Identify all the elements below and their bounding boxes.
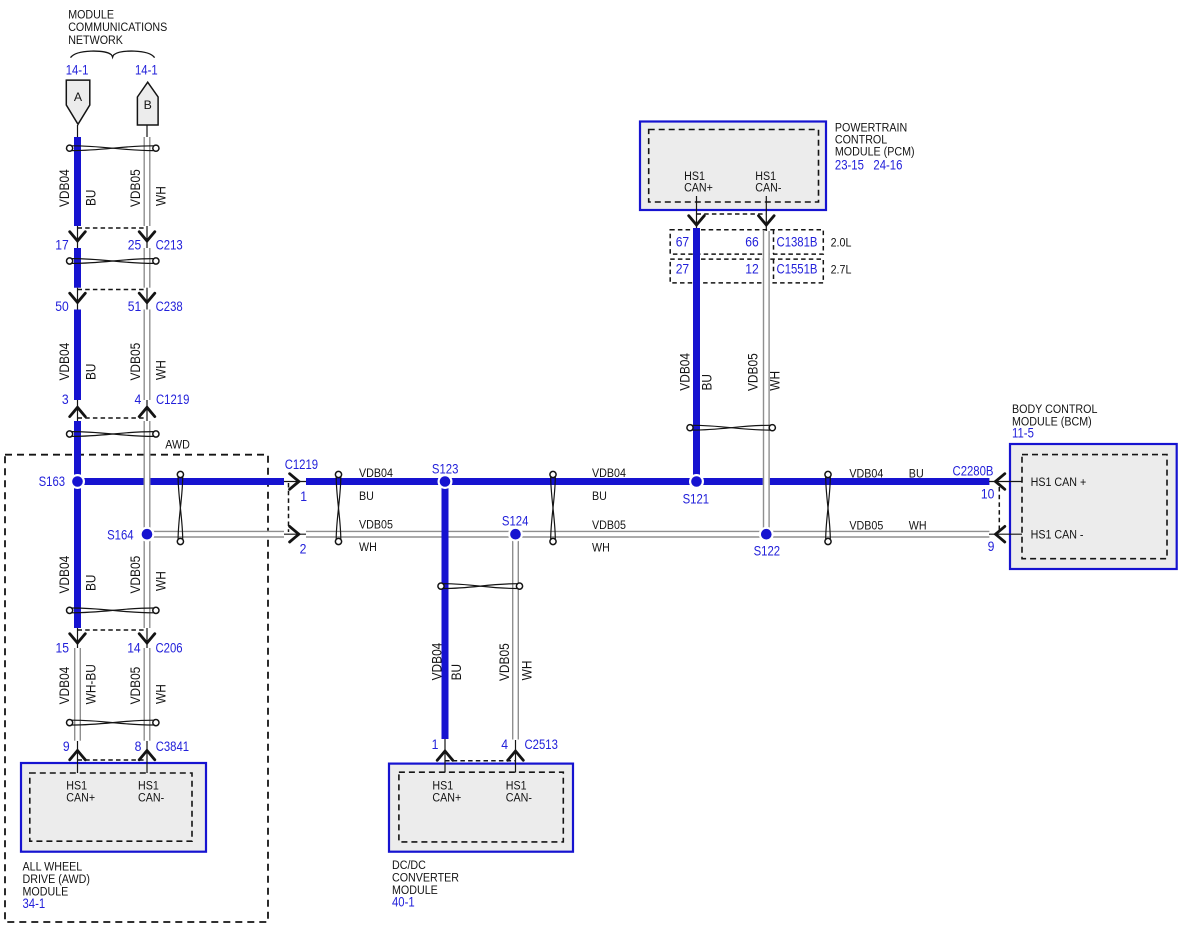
svg-text:VDB05: VDB05 — [127, 169, 143, 207]
svg-text:C1219: C1219 — [285, 457, 318, 472]
wire VDB05 WH horizontal S164 to C1219 pin 2 — [147, 531, 284, 537]
svg-text:11-5: 11-5 — [1012, 426, 1034, 441]
svg-text:S163: S163 — [39, 474, 66, 489]
wire VDB04 BU horizontal S163 to C1219 pin 1 — [78, 478, 285, 485]
label DC/DC CONVERTER MODULE — [392, 858, 459, 897]
wire label VDB05 WH vertical PCM — [744, 353, 782, 391]
svg-text:8: 8 — [135, 739, 142, 754]
label ALL WHEEL DRIVE (AWD) MODULE — [23, 860, 90, 899]
PCM pin label HS1 CAN+ — [684, 169, 713, 194]
svg-text:BU: BU — [359, 489, 374, 503]
twisted pair below A/B — [67, 145, 159, 151]
svg-text:12: 12 — [745, 262, 759, 277]
svg-text:BU: BU — [699, 374, 715, 391]
svg-text:51: 51 — [128, 299, 142, 314]
wire VDB04 BU vertical C1219 to S163 — [74, 421, 81, 482]
svg-text:S164: S164 — [107, 527, 134, 542]
pin 4 lead into DC/DC module — [515, 740, 517, 773]
C238 pin 51 terminal arrow — [139, 293, 155, 302]
svg-text:A: A — [74, 90, 83, 104]
svg-text:C1219: C1219 — [156, 392, 189, 407]
connector C206 dashed line — [78, 629, 148, 631]
svg-text:VDB04: VDB04 — [56, 556, 72, 594]
page ref 23-15 24-16 — [835, 158, 903, 173]
wire VDB05 WH vertical PCM to S122 — [764, 231, 770, 534]
svg-text:1: 1 — [300, 489, 307, 504]
svg-text:WH: WH — [153, 360, 169, 380]
C2280B pin 9 terminal arrow — [996, 526, 1005, 542]
svg-text:WH: WH — [153, 684, 169, 704]
wire label VDB04 BU segment 2 — [592, 466, 626, 503]
C1219 pin 3 terminal arrow — [70, 407, 86, 416]
wire label VDB04 BU vertical group 2 — [56, 343, 99, 381]
svg-text:4: 4 — [501, 737, 508, 752]
C238 pin 50 terminal arrow — [70, 293, 86, 302]
twisted pair below S123/S124 — [438, 583, 523, 589]
label POWERTRAIN CONTROL MODULE (PCM) — [835, 120, 915, 158]
splice S121 — [689, 474, 704, 489]
svg-text:HS1 CAN +: HS1 CAN + — [1031, 475, 1087, 489]
PCM CAN- terminal arrow — [759, 216, 775, 225]
connector C2280B dashed line — [998, 487, 1000, 530]
wire VDB04 BU horizontal C1219 to C2280B — [306, 478, 989, 485]
svg-text:66: 66 — [745, 234, 759, 249]
twisted pair below C1219 — [67, 431, 159, 437]
wire label VDB05 WH vertical center — [496, 643, 535, 681]
wire label VDB04 BU vertical PCM — [676, 353, 714, 391]
svg-text:CAN+: CAN+ — [66, 791, 95, 805]
twisted pair on horizontal run right — [825, 471, 831, 544]
svg-text:VDB04: VDB04 — [56, 169, 72, 207]
svg-text:14-1: 14-1 — [66, 63, 89, 78]
svg-text:CAN+: CAN+ — [684, 180, 713, 194]
C213 pin 25 lead — [146, 226, 148, 248]
svg-text:27: 27 — [676, 262, 690, 277]
svg-text:C213: C213 — [156, 238, 183, 253]
module box AWD (All Wheel Drive Module) — [21, 763, 206, 852]
wire VDB05 WH vertical C238 to C1219 — [144, 310, 150, 401]
svg-text:NETWORK: NETWORK — [68, 33, 123, 47]
C1219 pin 4 terminal arrow — [139, 407, 155, 416]
connector box C1381B — [670, 230, 823, 254]
splice S164 — [140, 527, 155, 542]
wire VDB05 WH vertical S164 to C206 — [144, 534, 150, 628]
C213 pin 17 lead — [77, 226, 79, 248]
connector C1219 dashed line (pins 3/4) — [78, 417, 148, 419]
C1219 pin 1 lead — [284, 481, 306, 483]
wire VDB04 BU vertical PCM to S121 — [693, 228, 700, 482]
svg-text:VDB05: VDB05 — [127, 556, 143, 594]
wire stub below connector B — [146, 125, 148, 138]
twisted pair on horizontal run left — [335, 471, 341, 544]
twisted pair below C213 — [67, 258, 159, 264]
svg-text:50: 50 — [55, 299, 69, 314]
svg-text:VDB05: VDB05 — [744, 353, 760, 391]
wire VDB04 BU vertical C238 to C1219 — [74, 310, 81, 401]
pin 8 lead into AWD module — [146, 741, 148, 773]
wire label VDB05 WH vertical group 4 — [127, 667, 169, 705]
brace under MODULE COMMUNICATIONS NETWORK — [71, 51, 155, 58]
svg-text:VDB05: VDB05 — [127, 343, 143, 381]
wire label VDB05 WH vertical group 1 — [127, 169, 169, 207]
wire label VDB05 WH vertical group 2 — [127, 343, 169, 381]
DC/DC pin label HS1 CAN+ — [432, 778, 461, 804]
wire label VDB05 WH vertical group 3 — [127, 556, 169, 594]
C2280B pin 10 terminal arrow — [996, 474, 1005, 490]
connector terminal A — [66, 80, 90, 124]
svg-text:WH: WH — [153, 186, 169, 206]
svg-text:2.7L: 2.7L — [831, 263, 852, 277]
svg-text:VDB04: VDB04 — [849, 466, 883, 480]
wire VDB04 BU vertical from A to C213 — [74, 137, 81, 226]
svg-text:C1551B: C1551B — [777, 262, 818, 277]
connector C2513 dashed line — [445, 760, 516, 762]
splice S122 — [759, 527, 774, 542]
C2513 pin 4 terminal arrow — [508, 751, 524, 760]
PCM connector dashed line — [697, 213, 767, 215]
svg-text:WH: WH — [153, 571, 169, 591]
svg-text:BU: BU — [83, 364, 99, 381]
svg-text:VDB05: VDB05 — [127, 667, 143, 705]
svg-text:34-1: 34-1 — [23, 896, 46, 911]
DC/DC pin label HS1 CAN- — [506, 778, 532, 804]
svg-text:25: 25 — [128, 238, 142, 253]
svg-text:BU: BU — [83, 575, 99, 592]
AWD pin label HS1 CAN- — [138, 778, 164, 804]
wire VDB04 BU vertical S163 to C206 — [74, 482, 81, 629]
twisted pair on horizontal run middle — [550, 471, 556, 544]
svg-text:VDB04: VDB04 — [56, 667, 72, 705]
wire VDB04 BU vertical C213 to C238 — [74, 248, 81, 288]
connector C1219 dashed line (pins 1/2) — [288, 483, 290, 532]
svg-text:WH: WH — [909, 518, 927, 532]
wire label VDB04 BU vertical group 3 — [56, 556, 99, 594]
svg-text:HS1 CAN -: HS1 CAN - — [1031, 528, 1084, 542]
wire VDB05 WH vertical C1219 to S164 — [144, 421, 150, 534]
module box DC/DC Converter Module — [389, 764, 573, 852]
svg-text:VDB04: VDB04 — [676, 353, 692, 391]
svg-text:15: 15 — [56, 641, 70, 656]
svg-text:C3841: C3841 — [156, 739, 189, 754]
module box PCM (Powertrain Control Module) — [640, 122, 826, 211]
wire stub below connector A — [77, 125, 79, 138]
wire VDB04 BU vertical S123 to C2513 — [442, 482, 449, 740]
svg-text:C1381B: C1381B — [777, 234, 818, 249]
svg-text:14-1: 14-1 — [135, 63, 158, 78]
twisted pair below S163/S164 — [67, 607, 159, 613]
connector terminal B — [137, 82, 158, 125]
svg-text:BU: BU — [909, 466, 924, 480]
connector C213 dashed line — [78, 227, 148, 229]
svg-text:C206: C206 — [156, 641, 183, 656]
C1219 pin 3 lead — [77, 400, 79, 421]
wire label VDB04 BU segment 1 — [359, 466, 393, 503]
connector box C1551B — [670, 259, 823, 283]
svg-text:24-16: 24-16 — [873, 158, 902, 173]
svg-text:9: 9 — [63, 739, 70, 754]
svg-text:CAN-: CAN- — [755, 180, 781, 194]
svg-text:VDB05: VDB05 — [592, 518, 626, 532]
C238 pin 51 lead — [146, 288, 148, 310]
C3841 pin 9 terminal arrow — [70, 751, 86, 760]
svg-text:BU: BU — [448, 664, 464, 681]
svg-text:BU: BU — [83, 190, 99, 207]
pin 1 lead into DC/DC module — [444, 739, 446, 773]
C238 pin 50 lead — [77, 288, 79, 310]
svg-text:VDB05: VDB05 — [849, 518, 883, 532]
svg-text:B: B — [144, 98, 152, 112]
svg-text:S121: S121 — [683, 492, 710, 507]
svg-text:2: 2 — [300, 541, 307, 556]
splice S163 — [70, 474, 85, 489]
PCM pin label HS1 CAN- — [755, 169, 781, 194]
wire VDB05 WH vertical C206 to C3841 — [144, 648, 150, 741]
svg-text:WH: WH — [519, 661, 535, 681]
PCM CAN+ terminal arrow — [689, 216, 705, 225]
AWD pin label HS1 CAN+ — [66, 778, 95, 804]
splice S123 — [438, 474, 453, 489]
pin 9 lead into AWD module — [77, 741, 79, 773]
svg-text:MODULE (PCM): MODULE (PCM) — [835, 145, 915, 159]
title MODULE COMMUNICATIONS NETWORK — [68, 7, 167, 47]
connector C3841 dashed line — [78, 759, 148, 761]
label BODY CONTROL MODULE (BCM) — [1012, 402, 1098, 428]
svg-text:VDB04: VDB04 — [429, 643, 445, 681]
C1219 pin 2 terminal arrow — [290, 526, 299, 542]
C3841 pin 8 terminal arrow — [139, 751, 155, 760]
C1219 pin 4 lead — [146, 400, 148, 421]
wire label VDB04 BU segment 3 — [849, 466, 923, 480]
pin 10 lead into BCM — [989, 481, 1022, 483]
svg-text:4: 4 — [135, 392, 142, 407]
twisted pair on horizontal run inside AWD box — [177, 471, 183, 544]
wire VDB05 WH vertical S124 to C2513 — [513, 534, 519, 739]
C206 pin 14 terminal arrow — [139, 634, 155, 643]
C206 pin 15 terminal arrow — [70, 634, 86, 643]
wire label VDB05 WH segment 1 — [359, 518, 393, 554]
svg-text:14: 14 — [127, 641, 141, 656]
svg-text:VDB05: VDB05 — [359, 518, 393, 532]
svg-text:WH: WH — [592, 540, 610, 554]
svg-text:WH: WH — [359, 540, 377, 554]
svg-text:10: 10 — [981, 487, 995, 502]
splice S124 — [508, 527, 523, 542]
svg-text:C238: C238 — [156, 299, 183, 314]
svg-text:1: 1 — [432, 737, 439, 752]
svg-text:VDB04: VDB04 — [592, 466, 626, 480]
C1219 pin 1 terminal arrow — [290, 474, 299, 490]
svg-text:CAN-: CAN- — [506, 790, 532, 804]
module box BCM (Body Control Module) — [1010, 444, 1177, 569]
wire label VDB05 WH segment 2 — [592, 518, 626, 555]
svg-text:WH: WH — [767, 371, 783, 391]
pin lead from PCM HS1 CAN- — [765, 196, 767, 232]
svg-text:VDB04: VDB04 — [56, 343, 72, 381]
wire VDB04 WH-BU vertical C206 to C3841 — [75, 648, 81, 741]
svg-text:COMMUNICATIONS: COMMUNICATIONS — [68, 20, 167, 34]
C1219 pin 2 lead — [284, 533, 306, 535]
svg-text:C2513: C2513 — [525, 737, 558, 752]
pin 9 lead into BCM — [989, 533, 1022, 535]
svg-text:67: 67 — [676, 234, 690, 249]
C2513 pin 1 terminal arrow — [437, 751, 453, 760]
C206 pin 15 lead — [77, 628, 79, 648]
twisted pair below C206 — [67, 720, 159, 726]
wire VDB05 WH horizontal C1219 to C2280B — [306, 531, 989, 537]
wire label VDB04 BU vertical center — [429, 643, 465, 681]
svg-text:CAN+: CAN+ — [432, 790, 461, 804]
svg-text:AWD: AWD — [165, 438, 190, 452]
pin lead from PCM HS1 CAN+ — [696, 196, 698, 230]
svg-text:17: 17 — [55, 238, 69, 253]
wire label VDB04 WH-BU vertical group 4 — [56, 664, 99, 704]
svg-text:MODULE: MODULE — [68, 7, 114, 21]
svg-text:2.0L: 2.0L — [831, 235, 852, 249]
wire VDB05 WH vertical from B to C213 — [144, 137, 150, 226]
svg-text:40-1: 40-1 — [392, 894, 415, 909]
AWD harness dashed boundary box — [5, 455, 268, 922]
C206 pin 14 lead — [146, 628, 148, 648]
wire label VDB05 WH segment 3 — [849, 518, 926, 532]
svg-text:S123: S123 — [432, 462, 459, 477]
svg-text:BU: BU — [592, 489, 607, 503]
wire VDB05 WH vertical C213 to C238 — [144, 248, 150, 288]
svg-text:S122: S122 — [754, 544, 781, 559]
svg-text:VDB05: VDB05 — [496, 643, 512, 681]
svg-text:C2280B: C2280B — [953, 464, 994, 479]
svg-text:WH-BU: WH-BU — [83, 664, 99, 704]
wire label VDB04 BU vertical group 1 — [56, 169, 99, 207]
connector C238 dashed line — [78, 289, 148, 291]
svg-text:23-15: 23-15 — [835, 158, 864, 173]
svg-text:S124: S124 — [502, 514, 529, 529]
svg-text:9: 9 — [988, 539, 995, 554]
C213 pin 17 terminal arrow — [70, 232, 86, 241]
svg-text:3: 3 — [62, 392, 69, 407]
svg-text:VDB04: VDB04 — [359, 466, 393, 480]
svg-text:CAN-: CAN- — [138, 791, 164, 805]
C213 pin 25 terminal arrow — [139, 232, 155, 241]
twisted pair below PCM — [687, 425, 776, 431]
